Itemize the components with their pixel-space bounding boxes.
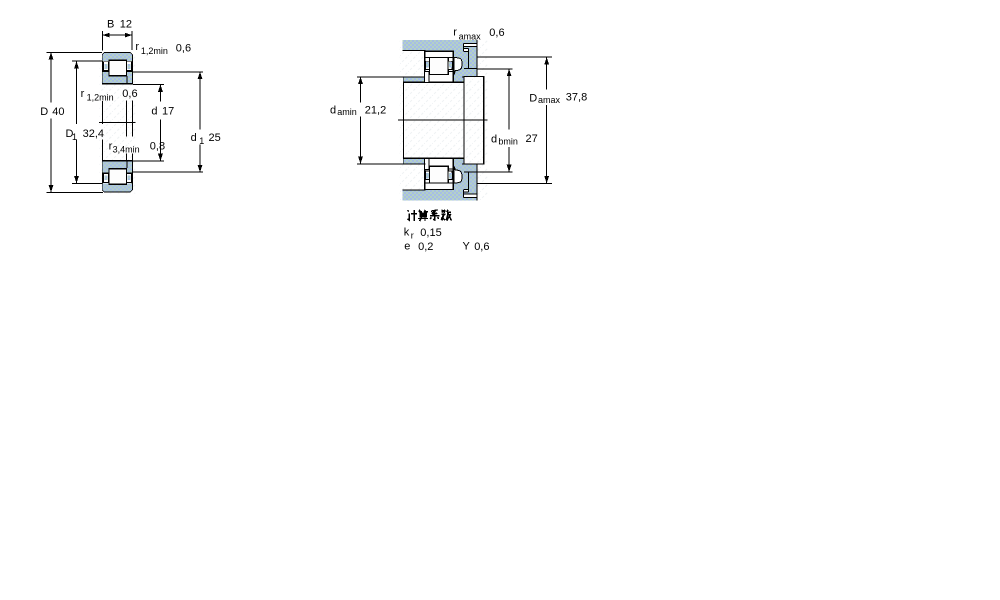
B dimension line — [103, 34, 133, 36]
svg-text:k: k — [404, 226, 410, 238]
svg-text:1: 1 — [199, 136, 204, 146]
svg-text:40: 40 — [52, 106, 64, 118]
svg-text:0,2: 0,2 — [418, 241, 433, 253]
housing shoulder block bottom (mirror) — [454, 158, 477, 200]
inner ring flange line — [448, 70, 453, 72]
housing bottom band — [403, 190, 477, 200]
outer ring side tabs — [103, 60, 109, 61]
lines over bottom blue — [103, 71, 131, 73]
block blue body — [454, 50, 477, 76]
shoulder bore line — [464, 67, 477, 69]
flange ring division line — [126, 76, 128, 83]
svg-text:amax: amax — [459, 32, 482, 42]
svg-text:32,4: 32,4 — [83, 128, 104, 140]
bottom bearing section (mirror) — [425, 158, 454, 189]
svg-text:0,6: 0,6 — [176, 43, 191, 55]
svg-text:1,2min: 1,2min — [141, 46, 168, 56]
groove left border — [462, 43, 464, 51]
da dimension extension lines — [357, 77, 425, 164]
shoulder face line — [468, 49, 470, 69]
svg-text:bmin: bmin — [498, 137, 518, 147]
housing shoulder block top — [454, 40, 477, 82]
char suan — [418, 210, 428, 221]
d1 dimension line — [199, 72, 201, 172]
d1 dimension extension lines — [132, 72, 203, 172]
da dimension line — [360, 77, 362, 164]
svg-text:d: d — [191, 132, 197, 144]
svg-text:D: D — [40, 106, 48, 118]
d arrows — [158, 85, 163, 161]
char shu — [441, 210, 451, 221]
svg-text:r: r — [411, 230, 414, 240]
da arrows — [358, 77, 363, 164]
cage pocket left — [426, 61, 430, 69]
svg-text:d: d — [491, 134, 497, 146]
shaft left edge — [403, 77, 405, 164]
top bearing cross-section — [102, 52, 132, 84]
svg-text:D: D — [529, 92, 537, 104]
centerline axis — [99, 121, 135, 123]
block bottom edge — [462, 76, 477, 78]
svg-text:0,6: 0,6 — [122, 88, 137, 100]
db dimension line — [508, 69, 510, 172]
svg-text:r: r — [81, 88, 85, 100]
section body — [425, 51, 454, 82]
svg-text:12: 12 — [120, 19, 132, 31]
Da dimension line — [546, 57, 548, 183]
svg-text:1,2min: 1,2min — [87, 92, 114, 102]
inner ring bottom assembly (blue) — [103, 72, 132, 83]
svg-text:B: B — [107, 19, 114, 31]
loose flange washer — [425, 71, 430, 82]
svg-text:37,8: 37,8 — [566, 91, 587, 103]
db arrows — [507, 69, 512, 172]
svg-text:0,15: 0,15 — [420, 227, 441, 239]
roller — [429, 58, 448, 75]
D dimension extension lines — [47, 52, 104, 192]
D arrows — [49, 52, 54, 192]
calculation factors heading (Chinese) 计算系数 — [407, 210, 451, 221]
svg-text:r: r — [453, 26, 457, 38]
svg-text:r: r — [135, 41, 139, 53]
bore silhouette line left — [102, 101, 104, 161]
bottom bearing cross-section (mirror) — [102, 160, 132, 192]
svg-text:0,8: 0,8 — [150, 140, 165, 152]
svg-text:d: d — [151, 106, 157, 118]
housing bore lines — [403, 50, 426, 190]
svg-text:27: 27 — [526, 133, 538, 145]
B dimension extension lines — [103, 31, 133, 51]
D1 dimension line — [76, 61, 78, 183]
svg-text:amax: amax — [538, 95, 561, 105]
svg-text:Y: Y — [463, 240, 471, 252]
D1 arrows — [74, 61, 79, 183]
d dimension extension lines — [133, 85, 164, 161]
cage pocket right — [448, 61, 452, 69]
svg-text:3,4min: 3,4min — [113, 145, 140, 155]
hatch background of bearing figure — [100, 51, 136, 194]
Da arrows — [544, 57, 549, 183]
roller — [109, 60, 127, 75]
shaft shoulder strip top — [404, 77, 425, 82]
cage pocket left — [103, 62, 108, 71]
shaft seat lines — [404, 82, 465, 158]
collar blue — [454, 50, 464, 82]
svg-text:17: 17 — [162, 105, 174, 117]
Da dimension extension lines — [477, 57, 552, 183]
groove slot A — [464, 44, 477, 47]
B arrows — [103, 33, 133, 38]
fillet-ring bump — [454, 58, 462, 74]
svg-text:0,6: 0,6 — [474, 241, 489, 253]
svg-text:25: 25 — [209, 132, 221, 144]
groove slot C — [464, 49, 468, 51]
hatch background of mounting figure — [399, 40, 487, 201]
section body outline — [102, 52, 132, 84]
char xi — [430, 210, 440, 220]
D1 dimension extension lines — [72, 61, 103, 183]
svg-text:21,2: 21,2 — [365, 104, 386, 116]
outer ring bore line — [426, 56, 453, 58]
d dimension line — [159, 85, 161, 161]
d1 arrows — [198, 72, 203, 172]
thick bore edge — [102, 83, 132, 85]
svg-text:d: d — [330, 104, 336, 116]
outer ring (blue band) — [103, 53, 132, 60]
bore silhouette line right — [131, 101, 133, 161]
bore silhouette line mid-right — [125, 101, 127, 161]
db dimension extension lines — [477, 69, 512, 172]
svg-text:amin: amin — [337, 107, 357, 117]
block right edge — [476, 40, 478, 77]
svg-text:e: e — [404, 241, 410, 253]
svg-text:1: 1 — [72, 132, 77, 142]
shaft shoulder strip bottom — [404, 158, 425, 163]
cage pocket right — [127, 62, 132, 71]
housing top band — [403, 40, 477, 50]
top bearing section (mounted) — [425, 51, 454, 82]
svg-text:0,6: 0,6 — [489, 27, 504, 39]
centerline axis — [398, 119, 487, 121]
char ji — [407, 210, 417, 221]
D dimension line — [50, 52, 52, 192]
abutment spacer sleeve — [464, 77, 484, 164]
